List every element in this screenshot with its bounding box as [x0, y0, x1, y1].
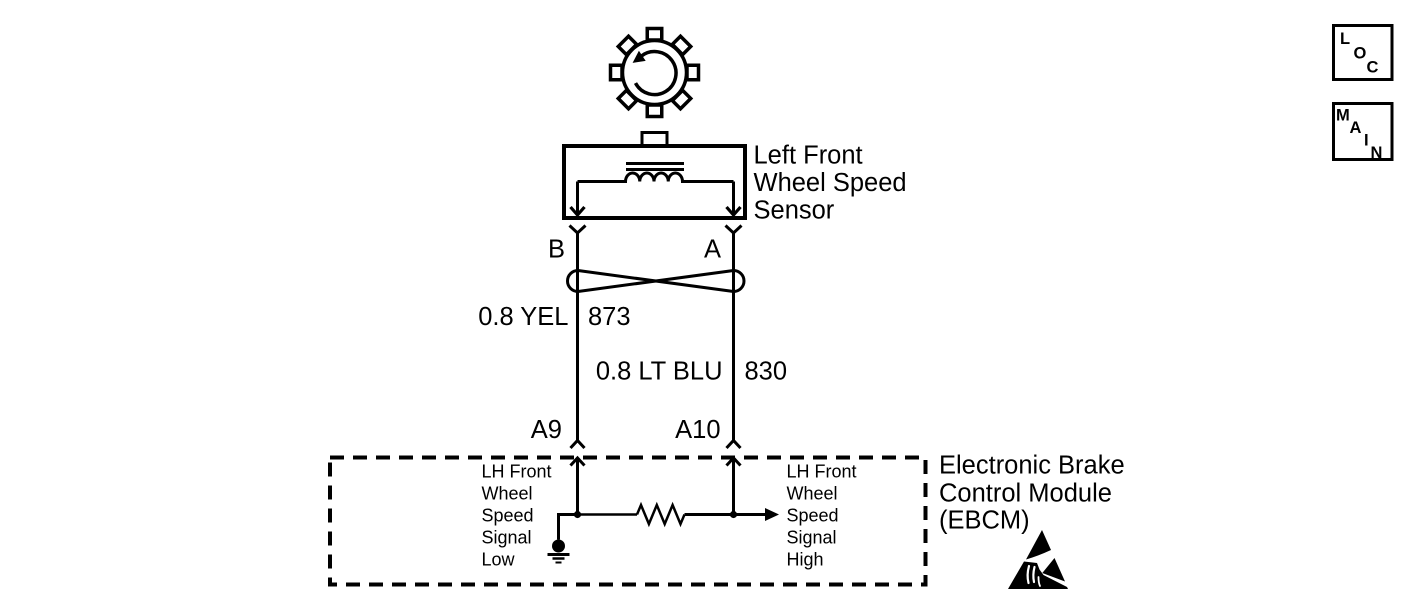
svg-text:(EBCM): (EBCM) [939, 507, 1030, 535]
svg-text:A: A [704, 236, 721, 264]
wire junction to resistor [578, 513, 638, 516]
svg-text:Wheel Speed: Wheel Speed [754, 169, 907, 197]
junction dot left [574, 511, 581, 518]
svg-text:A9: A9 [531, 416, 562, 444]
svg-text:Left Front: Left Front [754, 142, 863, 170]
sensor coil (inductor) [578, 173, 734, 182]
svg-text:Electronic Brake: Electronic Brake [939, 452, 1125, 480]
svg-text:I: I [1364, 132, 1369, 150]
svg-text:LH Front: LH Front [482, 462, 552, 482]
EBCM entry arrow left (signal low input) [576, 458, 579, 515]
connector female end pin A [726, 226, 742, 234]
ground symbol [552, 540, 565, 553]
svg-text:L: L [1340, 30, 1350, 48]
svg-text:LH Front: LH Front [787, 462, 857, 482]
svg-text:High: High [787, 550, 824, 570]
rotation arrow inside tone ring [636, 52, 677, 95]
EBCM entry arrow right (signal high input) [732, 458, 735, 515]
sensor core lines [626, 162, 684, 165]
label: LH Front Wheel Speed Signal High [787, 462, 857, 570]
sensor internal lead right with down arrow [732, 182, 735, 215]
svg-text:0.8 YEL: 0.8 YEL [478, 303, 568, 331]
svg-text:B: B [548, 236, 565, 264]
label: LH Front Wheel Speed Signal Low [482, 462, 552, 570]
LOC reference box [1334, 26, 1393, 80]
svg-text:Speed: Speed [787, 506, 839, 526]
svg-text:Sensor: Sensor [754, 197, 835, 225]
tone ring (toothed wheel) [611, 29, 699, 117]
svg-text:Control Module: Control Module [939, 480, 1112, 508]
svg-text:C: C [1367, 59, 1379, 77]
svg-text:Wheel: Wheel [787, 484, 838, 504]
svg-text:M: M [1336, 107, 1350, 125]
svg-text:O: O [1354, 45, 1367, 63]
twisted pair symbol [568, 271, 745, 292]
wire resistor to signal-high arrow [685, 513, 767, 516]
svg-text:Low: Low [482, 550, 516, 570]
ESD sensitive symbol [1008, 530, 1068, 589]
svg-text:Speed: Speed [482, 506, 534, 526]
junction dot right [730, 511, 737, 518]
svg-text:830: 830 [745, 358, 788, 386]
sensor box (Left Front Wheel Speed Sensor) [564, 146, 745, 218]
connector female end pin B [570, 226, 586, 234]
svg-text:A10: A10 [675, 416, 720, 444]
svg-text:Signal: Signal [787, 528, 837, 548]
svg-text:0.8 LT BLU: 0.8 LT BLU [596, 358, 723, 386]
resistor R [637, 505, 685, 524]
wire A (right vertical) [732, 233, 735, 440]
wire B (left vertical) [576, 233, 579, 440]
signal high arrowhead [765, 508, 779, 521]
MAIN reference box [1334, 104, 1393, 160]
svg-text:Wheel: Wheel [482, 484, 533, 504]
svg-text:873: 873 [588, 303, 631, 331]
sensor mounting tab [642, 133, 667, 147]
svg-text:Signal: Signal [482, 528, 532, 548]
connector male end A9 [571, 441, 585, 449]
sensor internal lead left with down arrow [576, 182, 579, 215]
svg-text:N: N [1371, 144, 1383, 162]
svg-text:A: A [1350, 119, 1362, 137]
EBCM dashed box [330, 458, 926, 585]
connector male end A10 [727, 441, 741, 449]
ground branch wire [559, 515, 578, 540]
